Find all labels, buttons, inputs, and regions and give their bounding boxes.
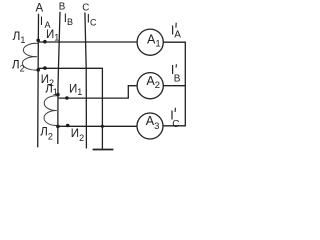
node common junction dot bbox=[101, 125, 104, 128]
ammeter A3 circle bbox=[137, 113, 163, 139]
wire phase line B bbox=[58, 12, 60, 144]
svg-text:Л2: Л2 bbox=[12, 57, 25, 73]
ammeter A1 circle bbox=[137, 29, 163, 55]
node Л2 terminal dot CT2 bbox=[56, 125, 60, 129]
svg-text:IC: IC bbox=[87, 14, 97, 28]
label current I'C bbox=[170, 108, 179, 131]
wire W1 secondary И1 of CT1 to ammeter A1 bbox=[38, 41, 137, 43]
svg-text:IA: IA bbox=[40, 16, 51, 30]
svg-text:Л2: Л2 bbox=[40, 126, 53, 141]
svg-text:A3: A3 bbox=[146, 114, 160, 132]
wire W2 secondary И2 of CT1 down to common junction bbox=[38, 68, 102, 148]
label current I'A bbox=[171, 23, 181, 41]
current transformer CT1 primary winding arcs bbox=[22, 43, 38, 70]
svg-text:A: A bbox=[174, 29, 181, 40]
svg-text:И1: И1 bbox=[46, 29, 59, 43]
svg-text:C: C bbox=[172, 119, 179, 130]
svg-text:B: B bbox=[59, 2, 66, 13]
node Л2 terminal dot CT1 bbox=[36, 68, 40, 72]
wire phase line C bbox=[85, 13, 87, 149]
wire A2 right to common bus bbox=[163, 85, 185, 87]
svg-text:B: B bbox=[174, 74, 181, 85]
node И1 terminal dot CT2 bbox=[65, 96, 69, 100]
node И2 terminal dot CT1 bbox=[43, 66, 47, 70]
label current I'B bbox=[171, 63, 181, 84]
svg-text:C: C bbox=[82, 2, 89, 13]
ground bar bbox=[93, 149, 114, 151]
svg-text:A2: A2 bbox=[146, 74, 160, 91]
wire phase line A bbox=[37, 14, 40, 148]
svg-text:Л1: Л1 bbox=[45, 83, 58, 97]
wire W3 secondary И1 of CT2 to ammeter A2 bbox=[58, 86, 137, 98]
svg-text:IB: IB bbox=[64, 13, 73, 27]
wire A1 right to common bus bbox=[163, 42, 185, 126]
current transformer CT2 primary winding arcs bbox=[44, 96, 58, 126]
wire W4 secondary И2 of CT2 to ammeter A3 bbox=[58, 125, 137, 127]
node И1 terminal dot CT1 bbox=[43, 40, 47, 44]
ammeter A2 circle bbox=[137, 73, 163, 99]
svg-text:Л1: Л1 bbox=[13, 29, 26, 45]
node Л1 terminal dot CT1 bbox=[36, 39, 40, 43]
svg-text:A: A bbox=[36, 2, 44, 14]
svg-text:И1: И1 bbox=[69, 84, 82, 98]
svg-text:A1: A1 bbox=[147, 33, 161, 50]
svg-text:И2: И2 bbox=[71, 128, 84, 143]
node И2 terminal dot CT2 bbox=[66, 124, 70, 128]
node Л1 terminal dot CT2 bbox=[56, 93, 60, 97]
